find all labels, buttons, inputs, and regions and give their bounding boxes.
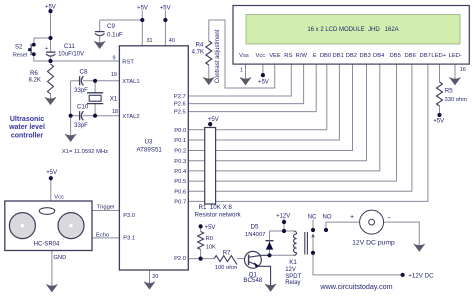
svg-text:XTAL2: XTAL2 bbox=[122, 114, 139, 120]
svg-text:controller: controller bbox=[11, 133, 44, 140]
svg-text:20: 20 bbox=[152, 274, 158, 280]
svg-text:X1= 11.0592 MHz: X1= 11.0592 MHz bbox=[62, 149, 108, 155]
svg-text:K1: K1 bbox=[289, 259, 297, 266]
svg-text:R4: R4 bbox=[195, 42, 203, 49]
svg-text:Contrast adjustment: Contrast adjustment bbox=[215, 29, 221, 83]
svg-text:Ultrasonic: Ultrasonic bbox=[10, 116, 44, 123]
svg-text:0.1uF: 0.1uF bbox=[107, 32, 123, 39]
svg-text:10K: 10K bbox=[206, 244, 216, 250]
svg-text:RST: RST bbox=[122, 60, 134, 66]
svg-text:RS: RS bbox=[284, 53, 292, 59]
svg-text:P0.2: P0.2 bbox=[174, 149, 186, 155]
svg-text:P0.3: P0.3 bbox=[174, 159, 186, 165]
svg-text:+5V: +5V bbox=[137, 5, 148, 11]
svg-text:P0.7: P0.7 bbox=[174, 200, 186, 206]
svg-text:C11: C11 bbox=[64, 43, 75, 50]
svg-text:+5V: +5V bbox=[208, 117, 219, 123]
svg-text:P2.6: P2.6 bbox=[174, 102, 186, 108]
svg-text:40: 40 bbox=[169, 38, 175, 44]
svg-text:1N4007: 1N4007 bbox=[245, 232, 265, 238]
svg-text:4.7K: 4.7K bbox=[192, 49, 204, 55]
svg-text:www.circuitstoday.com: www.circuitstoday.com bbox=[319, 282, 392, 291]
svg-text:R6: R6 bbox=[30, 70, 38, 77]
svg-text:+: + bbox=[45, 46, 48, 52]
svg-text:DB5: DB5 bbox=[390, 53, 401, 59]
svg-text:Resistor network: Resistor network bbox=[195, 211, 242, 218]
svg-text:U3: U3 bbox=[145, 139, 153, 146]
svg-text:P2.7: P2.7 bbox=[174, 94, 186, 100]
svg-text:R0: R0 bbox=[206, 236, 213, 242]
svg-text:10uF/10V: 10uF/10V bbox=[58, 51, 84, 57]
svg-text:330 ohm: 330 ohm bbox=[445, 97, 468, 103]
svg-text:P0.5: P0.5 bbox=[174, 179, 186, 185]
svg-text:X1: X1 bbox=[110, 96, 118, 103]
svg-text:31: 31 bbox=[147, 38, 153, 44]
svg-text:9: 9 bbox=[112, 55, 115, 61]
svg-text:+5V: +5V bbox=[433, 118, 444, 124]
svg-text:Vss: Vss bbox=[239, 53, 249, 59]
svg-text:12V DC pump: 12V DC pump bbox=[352, 240, 395, 247]
svg-text:NC: NC bbox=[308, 214, 317, 220]
svg-text:16 x 2 LCD MODULE JHD 162A: 16 x 2 LCD MODULE JHD 162A bbox=[307, 27, 398, 33]
svg-text:Vcc: Vcc bbox=[54, 194, 64, 200]
svg-text:HC-SR04: HC-SR04 bbox=[34, 242, 60, 248]
svg-text:+5V: +5V bbox=[205, 225, 216, 231]
svg-text:DB3: DB3 bbox=[360, 53, 371, 59]
svg-text:VEE: VEE bbox=[269, 53, 281, 59]
svg-text:33pF: 33pF bbox=[74, 123, 88, 129]
svg-text:Echo: Echo bbox=[96, 233, 109, 239]
svg-text:D5: D5 bbox=[251, 223, 259, 230]
svg-text:GND: GND bbox=[53, 255, 66, 261]
svg-text:DB6: DB6 bbox=[405, 53, 416, 59]
svg-text:P0.4: P0.4 bbox=[174, 169, 187, 175]
svg-text:LED+: LED+ bbox=[431, 53, 446, 59]
svg-text:AT89S51: AT89S51 bbox=[137, 147, 163, 154]
svg-text:DB2: DB2 bbox=[346, 53, 357, 59]
svg-text:BC548: BC548 bbox=[243, 277, 262, 284]
svg-text:DB0: DB0 bbox=[320, 53, 331, 59]
svg-text:33pF: 33pF bbox=[74, 88, 88, 94]
svg-text:8.2K: 8.2K bbox=[29, 78, 41, 84]
svg-text:R5: R5 bbox=[445, 87, 453, 94]
svg-text:Reset: Reset bbox=[13, 52, 28, 58]
svg-text:-: - bbox=[388, 213, 391, 222]
svg-text:16: 16 bbox=[460, 67, 466, 73]
svg-text:+12V: +12V bbox=[276, 213, 290, 219]
svg-text:R7: R7 bbox=[223, 250, 231, 256]
svg-text:E: E bbox=[313, 53, 317, 59]
svg-text:water level: water level bbox=[8, 124, 45, 131]
svg-text:S2: S2 bbox=[15, 44, 23, 50]
svg-text:P3.0: P3.0 bbox=[123, 213, 135, 219]
svg-text:19: 19 bbox=[111, 72, 117, 78]
svg-text:P0.0: P0.0 bbox=[174, 128, 186, 134]
svg-text:P2.0: P2.0 bbox=[174, 256, 186, 262]
svg-text:Trigger: Trigger bbox=[97, 205, 115, 211]
svg-text:+: + bbox=[350, 214, 354, 221]
svg-text:1: 1 bbox=[240, 67, 243, 73]
svg-text:DB7: DB7 bbox=[420, 53, 431, 59]
svg-text:C8: C8 bbox=[80, 69, 88, 76]
svg-text:R1 10K X 8: R1 10K X 8 bbox=[199, 204, 233, 211]
svg-text:12V: 12V bbox=[285, 267, 296, 273]
svg-text:C9: C9 bbox=[107, 23, 115, 30]
svg-text:P0.6: P0.6 bbox=[174, 189, 186, 195]
svg-text:C10: C10 bbox=[77, 104, 89, 111]
svg-text:Vcc: Vcc bbox=[255, 53, 265, 59]
svg-text:XTAL1: XTAL1 bbox=[122, 79, 139, 85]
svg-text:R/W: R/W bbox=[296, 53, 308, 59]
svg-text:NO: NO bbox=[323, 215, 332, 221]
svg-text:SPDT: SPDT bbox=[285, 274, 301, 280]
svg-text:+5V: +5V bbox=[258, 80, 269, 86]
svg-text:DB1: DB1 bbox=[333, 53, 344, 59]
svg-text:+12V DC: +12V DC bbox=[408, 273, 434, 280]
svg-text:P2.5: P2.5 bbox=[174, 110, 186, 116]
svg-text:18: 18 bbox=[112, 109, 118, 115]
svg-text:Relay: Relay bbox=[285, 280, 300, 286]
svg-text:100 ohm: 100 ohm bbox=[215, 265, 238, 271]
svg-text:+5V: +5V bbox=[46, 170, 57, 176]
svg-text:P0.1: P0.1 bbox=[174, 138, 186, 144]
svg-text:P3.1: P3.1 bbox=[123, 236, 135, 242]
svg-text:+5V: +5V bbox=[45, 4, 56, 10]
svg-text:LED-: LED- bbox=[449, 53, 462, 59]
svg-text:+5V: +5V bbox=[160, 5, 171, 11]
svg-text:DB4: DB4 bbox=[373, 53, 385, 59]
